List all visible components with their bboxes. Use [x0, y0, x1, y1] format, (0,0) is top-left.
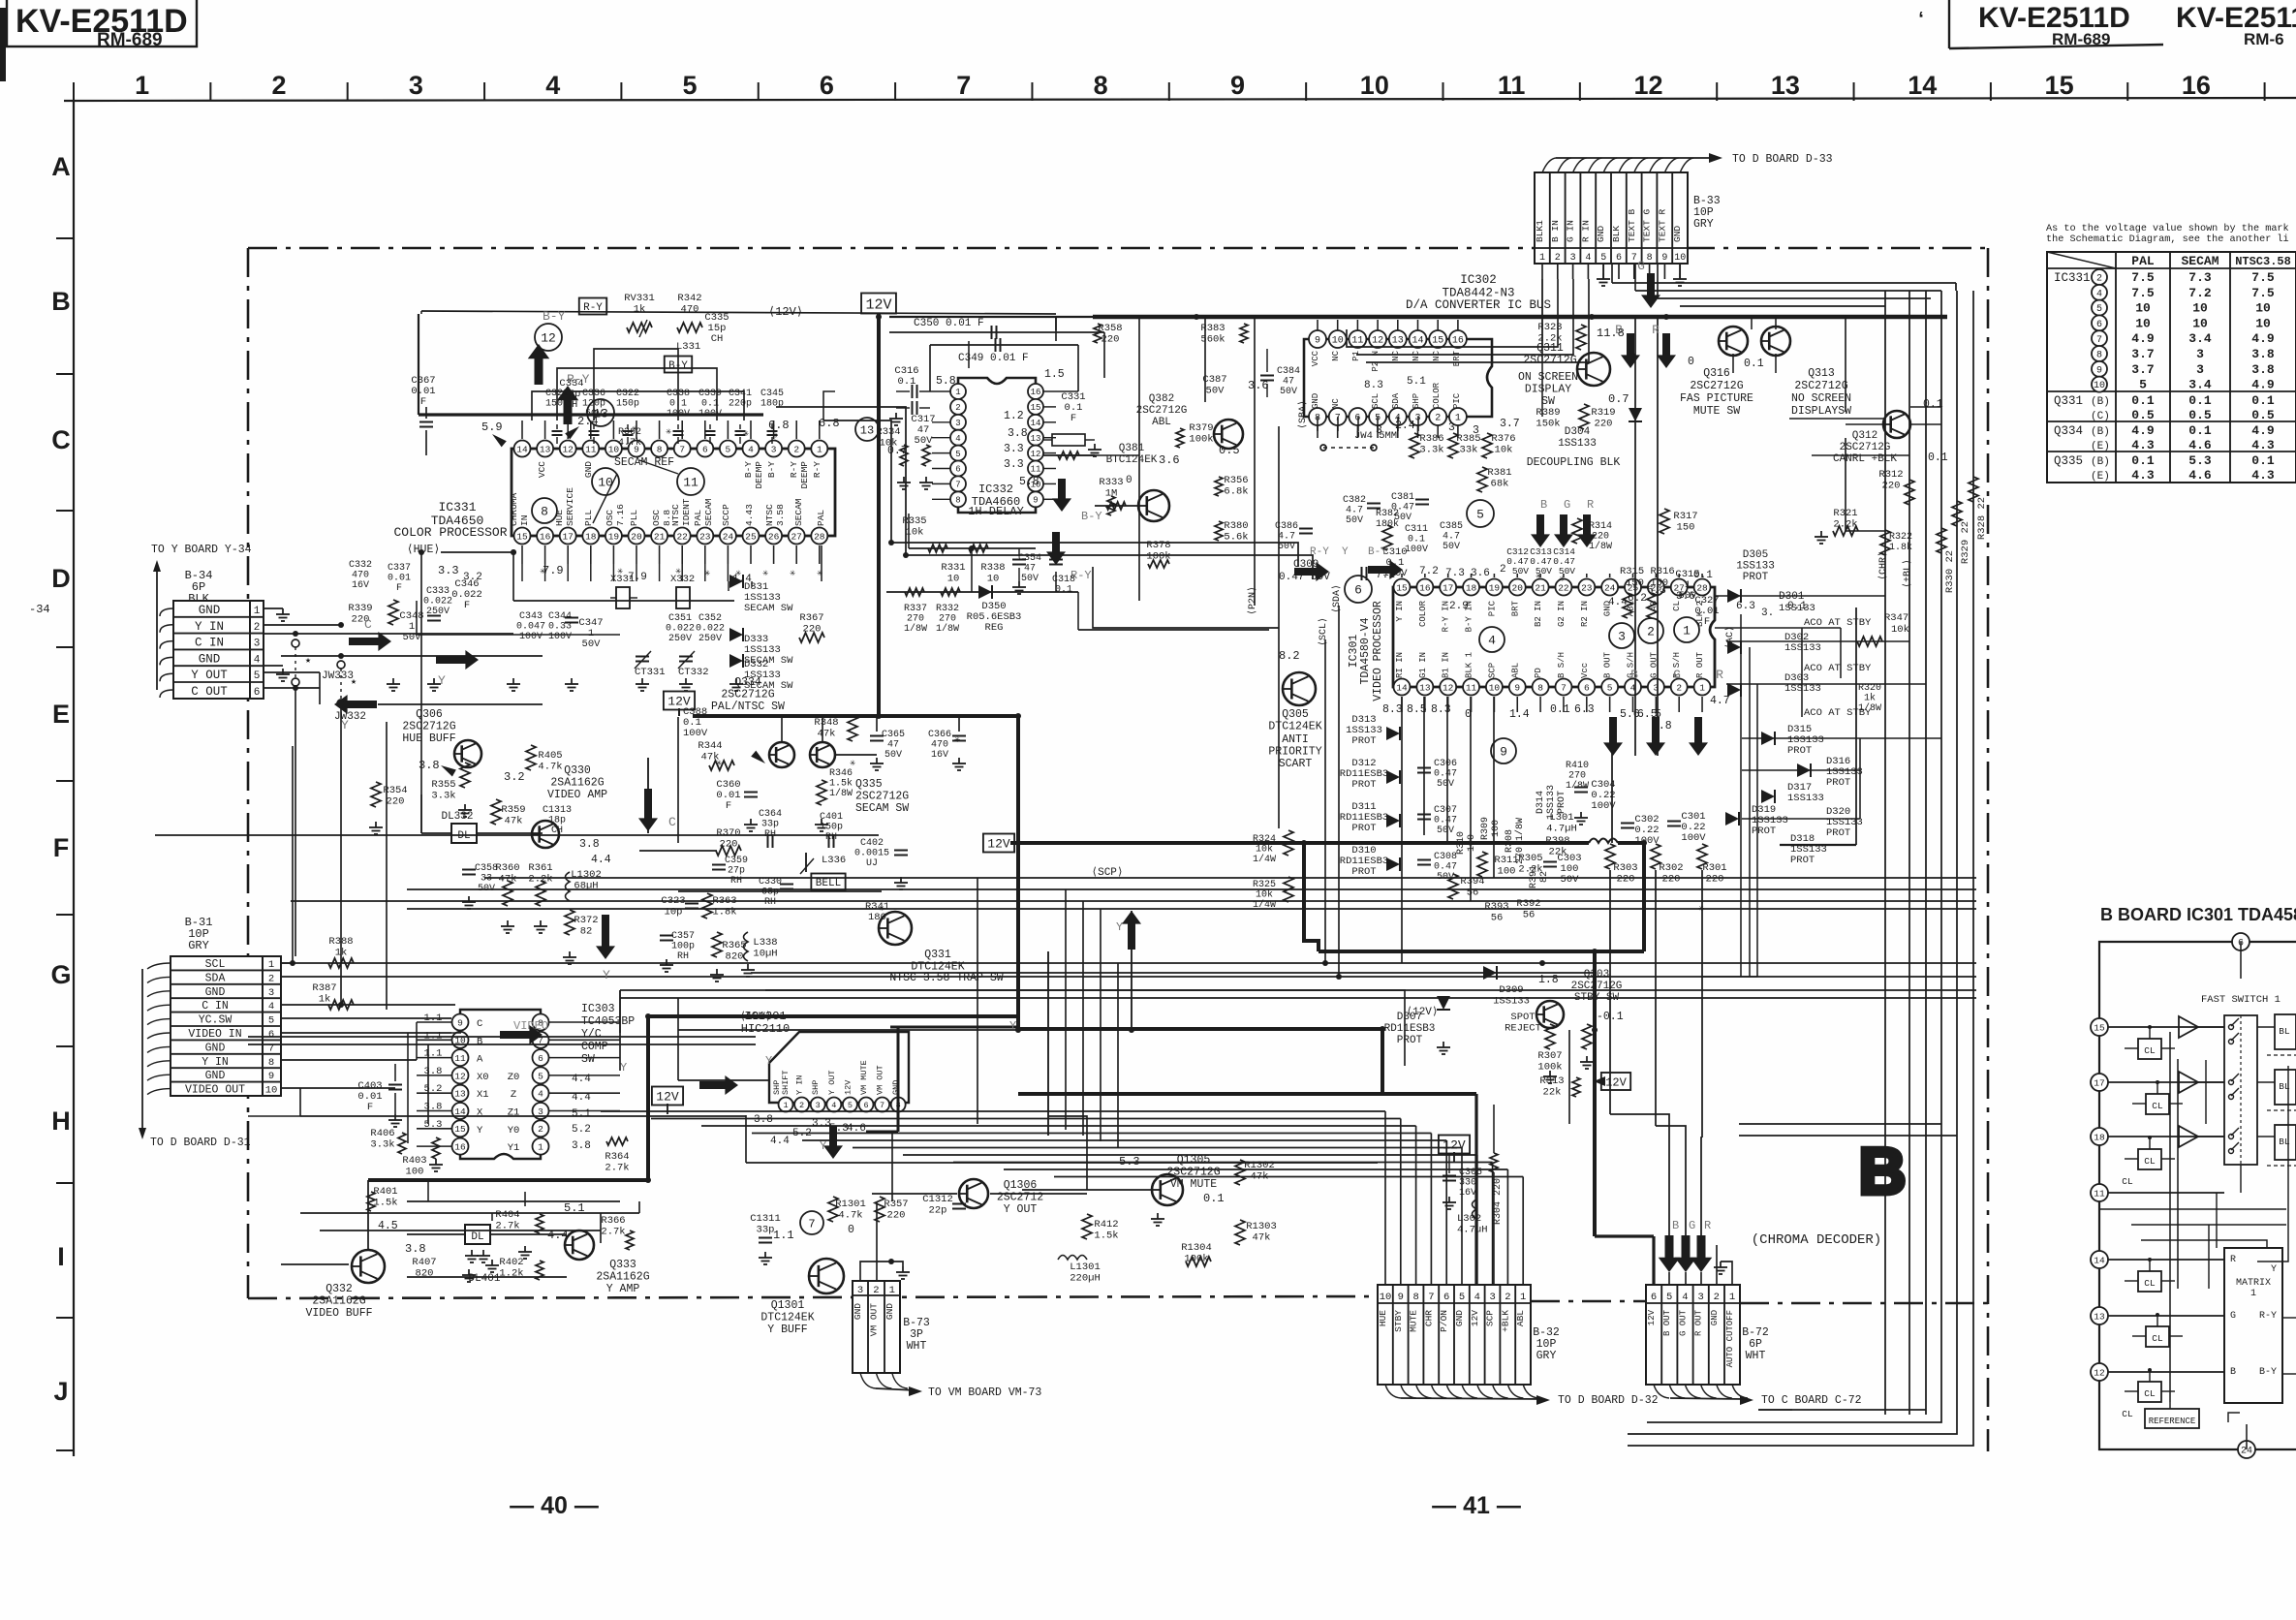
transistor Q332 video buff [352, 1250, 385, 1283]
svg-text:ACO AT STBY: ACO AT STBY [1804, 617, 1872, 629]
resistor R322 1.8k [1880, 530, 1890, 555]
svg-text:2: 2 [1555, 253, 1561, 264]
svg-text:0.1: 0.1 [2131, 393, 2155, 408]
resistor R1302 47k [1235, 1160, 1245, 1185]
svg-text:GRY: GRY [1693, 218, 1714, 231]
svg-text:7: 7 [955, 481, 960, 490]
svg-text:50V: 50V [1561, 874, 1580, 886]
svg-text:15: 15 [454, 1124, 466, 1135]
svg-text:2.4: 2.4 [577, 415, 599, 428]
svg-text:68k: 68k [1491, 479, 1509, 490]
svg-text:11: 11 [585, 444, 597, 454]
svg-text:RH: RH [677, 951, 689, 962]
svg-text:2SC2712G: 2SC2712G [1840, 442, 1891, 453]
svg-text:Q1301: Q1301 [771, 1299, 805, 1312]
svg-text:H: H [51, 1106, 71, 1136]
svg-text:50V: 50V [1437, 779, 1454, 790]
svg-text:14: 14 [1396, 682, 1408, 693]
svg-text:3.8: 3.8 [405, 1242, 426, 1256]
svg-text:DL: DL [471, 1231, 483, 1243]
left ruler tick [56, 1045, 74, 1047]
ruler tick 3 [483, 82, 485, 101]
svg-text:SHP: SHP [811, 1080, 821, 1095]
svg-text:18: 18 [585, 531, 597, 542]
svg-text:100p: 100p [671, 942, 695, 952]
svg-text:CT331: CT331 [635, 667, 666, 678]
svg-text:150 150: 150 150 [1626, 577, 1668, 589]
connector B-72 6P WHT [1646, 1285, 1740, 1385]
svg-text:GND: GND [1672, 226, 1683, 242]
svg-text:7: 7 [2096, 335, 2102, 346]
svg-text:12V: 12V [865, 296, 891, 313]
svg-text:PAL: PAL [2131, 254, 2155, 268]
table IC331 pin 10 [2092, 377, 2107, 392]
svg-text:R381: R381 [1487, 467, 1511, 479]
svg-text:Y: Y [765, 1054, 772, 1068]
svg-text:33p: 33p [757, 1225, 775, 1236]
svg-text:5: 5 [2096, 304, 2102, 315]
svg-text:0: 0 [848, 1224, 854, 1236]
svg-text:⟨12V⟩: ⟨12V⟩ [768, 305, 803, 319]
svg-text:R308: R308 [1505, 829, 1515, 853]
svg-text:VIDEO IN: VIDEO IN [188, 1028, 241, 1041]
arrow G down [1641, 273, 1660, 308]
block vertical bus lines [2169, 1032, 2171, 1402]
svg-text:R IN: R IN [1580, 220, 1591, 242]
svg-text:C384: C384 [1277, 366, 1300, 377]
svg-text:⟨12V⟩: ⟨12V⟩ [739, 1011, 771, 1023]
svg-text:10: 10 [947, 574, 960, 585]
svg-text:TO D BOARD D-33: TO D BOARD D-33 [1732, 153, 1833, 166]
svg-text:B IN: B IN [1550, 220, 1561, 242]
svg-text:R: R [1716, 668, 1723, 682]
svg-text:B: B [1672, 1219, 1679, 1232]
svg-text:3.8: 3.8 [1008, 427, 1028, 440]
svg-text:8: 8 [541, 505, 548, 519]
svg-text:RH: RH [825, 832, 837, 843]
connector B-33 10P GRY [1535, 172, 1688, 264]
table IC331 pin 2 [2092, 269, 2107, 285]
top right vertical drops from bus [1751, 317, 1753, 329]
svg-text:2: 2 [272, 71, 287, 100]
svg-text:27p: 27p [728, 866, 745, 877]
block pin 12 [2091, 1363, 2108, 1381]
svg-text:220: 220 [387, 796, 405, 808]
left ruler tick [56, 780, 74, 782]
svg-text:270: 270 [907, 614, 924, 625]
diode on stby line [1483, 966, 1497, 980]
fat arrow Y left [334, 695, 377, 714]
svg-text:1H-DELAY: 1H-DELAY [968, 505, 1024, 518]
wire Q334 region [677, 717, 679, 843]
svg-text:R394: R394 [1460, 876, 1484, 888]
svg-text:⟨SCP⟩: ⟨SCP⟩ [1091, 866, 1123, 879]
wires top band from B-33 to left [1055, 317, 1057, 330]
svg-text:R328 22: R328 22 [1976, 497, 1988, 540]
junction dots [511, 549, 516, 555]
svg-text:3.3: 3.3 [1004, 458, 1024, 471]
svg-text:DISPLAYSW: DISPLAYSW [1791, 405, 1851, 418]
svg-text:G: G [50, 960, 71, 989]
svg-text:B-Y: B-Y [2259, 1367, 2277, 1378]
svg-text:R2 IN: R2 IN [1580, 601, 1590, 627]
svg-text:REJECT: REJECT [1505, 1023, 1541, 1035]
12V box stby [1601, 1073, 1630, 1090]
svg-text:16: 16 [1031, 388, 1041, 397]
IC331 circled 8 [532, 498, 557, 523]
transistor Q333 y amp [565, 1231, 594, 1260]
svg-text:6: 6 [820, 71, 834, 100]
svg-text:NTSC 3.58 TRAP SW: NTSC 3.58 TRAP SW [889, 972, 1003, 984]
svg-text:6: 6 [955, 465, 960, 475]
svg-text:0.022: 0.022 [696, 624, 725, 635]
bottom-left extra wires [300, 1212, 639, 1214]
svg-text:C1311: C1311 [750, 1213, 781, 1225]
svg-text:1/8W: 1/8W [936, 623, 959, 635]
svg-text:R: R [1704, 1219, 1711, 1232]
svg-text:4.4: 4.4 [770, 1136, 790, 1147]
IC1301 pins 1-8 [779, 1098, 793, 1112]
svg-text:4.7k: 4.7k [618, 437, 641, 449]
vertical x1176 [1138, 317, 1140, 601]
svg-text:VM MUTE: VM MUTE [859, 1060, 869, 1095]
svg-text:10: 10 [2135, 301, 2151, 316]
verticals left of IC303 [416, 1022, 418, 1060]
bottom-left vertical stubs [524, 1192, 526, 1206]
svg-text:8: 8 [1537, 682, 1543, 693]
svg-text:4.9: 4.9 [2131, 423, 2155, 438]
svg-text:12V: 12V [1605, 1075, 1627, 1089]
svg-text:13: 13 [1031, 434, 1041, 444]
ruler tick 10 [1443, 82, 1444, 101]
svg-text:R312: R312 [1878, 469, 1903, 481]
svg-text:R361: R361 [528, 862, 552, 874]
wire y566 under IC332 [909, 547, 1036, 549]
B-33 fan to IC302 [1541, 279, 1543, 360]
svg-text:As to the voltage value shown: As to the voltage value shown by the mar… [2046, 223, 2289, 234]
svg-text:3: 3 [816, 1101, 821, 1110]
svg-text:9: 9 [1230, 71, 1245, 100]
svg-text:4.9: 4.9 [2131, 331, 2155, 346]
svg-text:10: 10 [1380, 1292, 1392, 1303]
svg-text:56: 56 [1523, 910, 1536, 921]
svg-text:(E): (E) [2091, 471, 2110, 483]
svg-text:0.5: 0.5 [1219, 444, 1240, 457]
svg-text:B-Y: B-Y [1368, 546, 1387, 558]
svg-text:DTC124EK: DTC124EK [1268, 721, 1321, 733]
svg-text:7.2: 7.2 [1419, 566, 1439, 577]
svg-text:C333: C333 [426, 586, 450, 597]
svg-text:1: 1 [889, 1285, 895, 1296]
svg-text:B-Y: B-Y [1081, 510, 1102, 523]
table IC331 pin 6 [2092, 315, 2107, 330]
block pin 15 [2091, 1018, 2108, 1036]
svg-text:C351: C351 [668, 613, 692, 624]
B-33 top curved exits [1542, 158, 1556, 172]
svg-text:R322: R322 [1889, 532, 1912, 543]
svg-text:✳: ✳ [879, 904, 884, 915]
svg-text:1.5k: 1.5k [1094, 1231, 1118, 1242]
svg-text:PROT: PROT [1351, 866, 1376, 878]
svg-text:— 41 —: — 41 — [1432, 1492, 1521, 1519]
svg-text:16: 16 [1419, 582, 1431, 593]
block pin 6 top [2232, 933, 2249, 950]
svg-text:6.8: 6.8 [768, 419, 790, 432]
svg-text:82: 82 [1539, 871, 1550, 883]
arrow R down mid [1689, 717, 1708, 756]
svg-text:C365: C365 [882, 730, 905, 740]
svg-text:JW333: JW333 [322, 670, 354, 682]
svg-text:R412: R412 [1094, 1219, 1118, 1231]
svg-text:B-Y: B-Y [743, 461, 754, 478]
svg-text:220: 220 [1617, 874, 1635, 886]
svg-text:3: 3 [1448, 421, 1455, 434]
buffer amp 2 [2179, 1072, 2198, 1093]
resistor R330 22 [1937, 528, 1946, 553]
svg-text:PIC: PIC [1452, 392, 1462, 409]
svg-text:F: F [464, 600, 470, 611]
svg-text:3: 3 [2196, 347, 2204, 361]
wires from IC331 bottom to band [728, 581, 729, 591]
svg-text:9: 9 [1500, 745, 1507, 760]
resistor R387 [328, 1000, 354, 1010]
transistor Q305 anti priority scart [1283, 672, 1316, 705]
svg-text:0.01: 0.01 [388, 574, 411, 584]
svg-text:180k: 180k [1376, 518, 1399, 530]
svg-text:100V: 100V [1405, 545, 1428, 555]
svg-text:470: 470 [681, 304, 699, 316]
svg-text:OSC: OSC [605, 510, 615, 526]
svg-text:SECAM SW: SECAM SW [855, 802, 909, 815]
svg-text:5: 5 [726, 444, 731, 454]
svg-text:R OUT: R OUT [1694, 1309, 1704, 1336]
svg-text:9: 9 [1661, 253, 1667, 264]
op IC332 TDA4660 box [958, 378, 1036, 513]
B-73 bottom exits [860, 1373, 876, 1388]
svg-text:X0: X0 [477, 1072, 489, 1083]
capacitor C354 C318 symbols [1012, 559, 1026, 561]
wire C350 level [889, 331, 1104, 333]
svg-text:F: F [53, 833, 70, 862]
svg-text:3: 3 [1570, 253, 1576, 264]
svg-text:CL: CL [2144, 1278, 2156, 1289]
resistor R329 22 [1952, 501, 1962, 526]
wires right of Q313 [1789, 418, 1885, 420]
svg-text:✳: ✳ [735, 569, 741, 579]
svg-text:12: 12 [1031, 450, 1041, 459]
svg-text:R310: R310 [1456, 831, 1467, 855]
svg-text:R389: R389 [1536, 407, 1560, 419]
svg-text:R398: R398 [1545, 835, 1569, 847]
svg-text:2: 2 [1505, 1292, 1510, 1303]
svg-text:C345: C345 [760, 389, 784, 399]
block switch to BL wires [2257, 1026, 2275, 1028]
svg-text:3.3k: 3.3k [431, 791, 455, 802]
B-34 gnd stubs [264, 607, 283, 609]
svg-text:10: 10 [1489, 682, 1501, 693]
svg-text:3.2: 3.2 [504, 770, 525, 784]
svg-text:TO D BOARD D-31: TO D BOARD D-31 [150, 1137, 251, 1149]
svg-text:R360: R360 [495, 862, 519, 874]
svg-text:L302: L302 [1457, 1213, 1481, 1225]
wire scl vertical [1324, 639, 1326, 963]
svg-text:R364: R364 [605, 1151, 629, 1163]
IC302 top pins 9-16 [1309, 330, 1326, 348]
svg-text:D/A CONVERTER IC BUS: D/A CONVERTER IC BUS [1406, 298, 1551, 312]
svg-text:‘: ‘ [1918, 9, 1924, 30]
svg-text:Y IN: Y IN [1395, 601, 1405, 622]
svg-text:220: 220 [887, 1210, 906, 1222]
svg-text:R311: R311 [1494, 855, 1518, 866]
svg-text:8.3: 8.3 [1364, 380, 1383, 391]
wire Q312 to border [1910, 406, 1941, 408]
svg-text:Y: Y [438, 673, 446, 688]
svg-text:5: 5 [538, 1071, 543, 1081]
svg-text:GND: GND [1596, 226, 1606, 242]
svg-text:Q333: Q333 [609, 1259, 636, 1271]
ruler tick 15 [2126, 82, 2128, 101]
svg-text:VM MUTE: VM MUTE [1170, 1178, 1217, 1191]
svg-text:-34: -34 [29, 603, 50, 616]
svg-text:3.4: 3.4 [2188, 331, 2212, 346]
ruler tick 7 [1031, 82, 1033, 101]
svg-text:L331: L331 [676, 341, 700, 353]
svg-text:PAL: PAL [816, 510, 826, 526]
long vertical x399 [386, 722, 388, 1010]
svg-text:★: ★ [305, 656, 311, 667]
svg-text:47k: 47k [499, 874, 517, 886]
block pin 11 [2091, 1184, 2108, 1201]
vertical from JW332 to R387 row [340, 703, 342, 1005]
BL box 3 [2275, 1125, 2296, 1160]
svg-text:VCC: VCC [1311, 350, 1320, 366]
svg-text:0.5: 0.5 [2131, 408, 2155, 422]
svg-text:8.2: 8.2 [1279, 649, 1300, 663]
svg-text:HUE BUFF: HUE BUFF [402, 732, 455, 745]
svg-text:Q382: Q382 [1149, 393, 1174, 405]
bus drop to B-32 12V pin [1474, 1094, 1477, 1285]
block diagram outer box [2099, 942, 2296, 1449]
svg-text:4: 4 [831, 1101, 836, 1110]
svg-text:4.3: 4.3 [2131, 468, 2155, 483]
block pin 24 bottom [2238, 1441, 2255, 1458]
B-31 exit arrow [141, 969, 143, 1132]
svg-text:Q316: Q316 [1703, 367, 1730, 380]
svg-text:PROT: PROT [1351, 823, 1376, 834]
CL delay box 2 [2146, 1094, 2169, 1114]
svg-text:NC: NC [1331, 398, 1341, 409]
svg-text:8: 8 [955, 496, 960, 506]
svg-text:3: 3 [409, 71, 423, 100]
svg-text:5: 5 [1600, 253, 1606, 264]
svg-text:5: 5 [268, 1015, 274, 1027]
svg-text:Q381: Q381 [1119, 443, 1145, 454]
svg-text:C344: C344 [548, 611, 572, 622]
jumper JW333 [295, 647, 296, 678]
svg-text:4.6: 4.6 [2188, 438, 2212, 452]
svg-text:CH: CH [551, 826, 563, 836]
CL delay box 6 [2138, 1382, 2161, 1402]
svg-text:B BOARD IC301 TDA458: B BOARD IC301 TDA458 [2100, 905, 2296, 924]
svg-text:SECAM: SECAM [703, 498, 714, 526]
svg-text:R313: R313 [1539, 1075, 1564, 1087]
svg-text:1: 1 [268, 959, 274, 971]
svg-text:3.6: 3.6 [1159, 453, 1180, 467]
svg-text:Y IN: Y IN [195, 620, 224, 634]
fat arrow C right [349, 632, 391, 651]
svg-text:12V: 12V [1647, 1309, 1657, 1325]
fat arrow Y down [596, 915, 615, 959]
svg-text:47: 47 [887, 740, 899, 751]
block wires CL connections [2125, 1047, 2138, 1049]
svg-text:(B): (B) [2091, 396, 2110, 408]
ruler tick 0 [73, 82, 75, 101]
svg-text:15: 15 [1031, 403, 1041, 413]
svg-text:100k: 100k [1189, 434, 1213, 446]
svg-text:(B): (B) [2091, 456, 2110, 468]
svg-text:Y: Y [1342, 546, 1349, 558]
svg-text:L1302: L1302 [571, 869, 602, 881]
svg-text:CHR: CHR [1423, 1310, 1434, 1326]
svg-text:R346: R346 [829, 768, 853, 779]
svg-text:R338: R338 [980, 562, 1005, 574]
svg-text:✳: ✳ [675, 567, 681, 577]
DL401 row wire [407, 1233, 465, 1235]
svg-text:8: 8 [268, 1057, 274, 1069]
svg-text:22p: 22p [929, 1205, 947, 1217]
svg-text:R1303: R1303 [1246, 1221, 1277, 1232]
svg-text:WHT: WHT [907, 1340, 927, 1353]
svg-text:5: 5 [1607, 682, 1613, 693]
svg-text:12: 12 [1443, 682, 1454, 693]
svg-text:16: 16 [1452, 336, 1464, 347]
svg-text:50V: 50V [1512, 566, 1529, 576]
svg-text:C322: C322 [616, 389, 639, 399]
svg-text:100: 100 [1491, 820, 1502, 837]
svg-text:B1 IN: B1 IN [1442, 652, 1451, 678]
svg-text:9: 9 [1514, 682, 1520, 693]
transistor Q316 fas picture mute [1719, 327, 1748, 356]
arrow B down mid [1603, 717, 1623, 756]
svg-text:1: 1 [1520, 1292, 1526, 1303]
svg-text:4: 4 [955, 434, 960, 444]
svg-text:Q313: Q313 [1808, 367, 1835, 380]
svg-text:C308: C308 [1434, 852, 1457, 862]
resistor R381 [1477, 467, 1487, 492]
svg-text:2: 2 [254, 622, 261, 634]
block pin 13 [2091, 1307, 2108, 1324]
vertical from JW333 to B-31 [295, 688, 296, 956]
svg-text:D314: D314 [1536, 791, 1546, 814]
BGR fat arrows to B-72 [1659, 1235, 1681, 1272]
wire x1082 down [1047, 951, 1049, 1136]
svg-text:✳: ✳ [1559, 575, 1565, 585]
bus horizontal 1129 [1018, 1092, 1476, 1096]
svg-text:11: 11 [1351, 336, 1363, 347]
12V box mid-right [983, 834, 1014, 853]
svg-text:1.8: 1.8 [1538, 974, 1559, 986]
wire y655 [417, 634, 620, 636]
svg-text:BELL: BELL [816, 878, 841, 889]
svg-text:SCL: SCL [1371, 393, 1381, 409]
svg-text:250V: 250V [668, 634, 692, 644]
thick feed above IC331 [419, 413, 763, 416]
IC301 bottom pins 14-1 [1394, 679, 1411, 696]
svg-text:GND: GND [205, 1042, 226, 1054]
wire band y860 [155, 834, 879, 836]
svg-text:FAST SWITCH 1: FAST SWITCH 1 [2201, 994, 2280, 1006]
wire IC332 pin stubs left [932, 421, 950, 423]
